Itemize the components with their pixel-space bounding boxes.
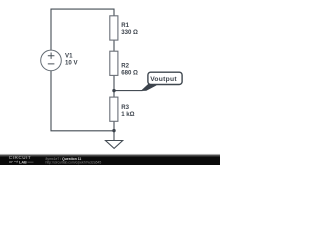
svg-text:10 V: 10 V <box>65 59 78 66</box>
svg-text:V1: V1 <box>65 52 73 59</box>
svg-text:R2: R2 <box>121 63 129 70</box>
svg-text:R1: R1 <box>121 22 129 29</box>
svg-text:330 Ω: 330 Ω <box>121 29 138 36</box>
svg-text:680 Ω: 680 Ω <box>121 70 138 77</box>
svg-text:http://circuitlab.com/c/pekh7w: http://circuitlab.com/c/pekh7w32a545 <box>46 161 102 165</box>
svg-text:LAB: LAB <box>19 160 27 164</box>
svg-text:1 kΩ: 1 kΩ <box>121 111 134 118</box>
svg-text:Voutput: Voutput <box>150 76 177 83</box>
svg-text:R3: R3 <box>121 104 129 111</box>
